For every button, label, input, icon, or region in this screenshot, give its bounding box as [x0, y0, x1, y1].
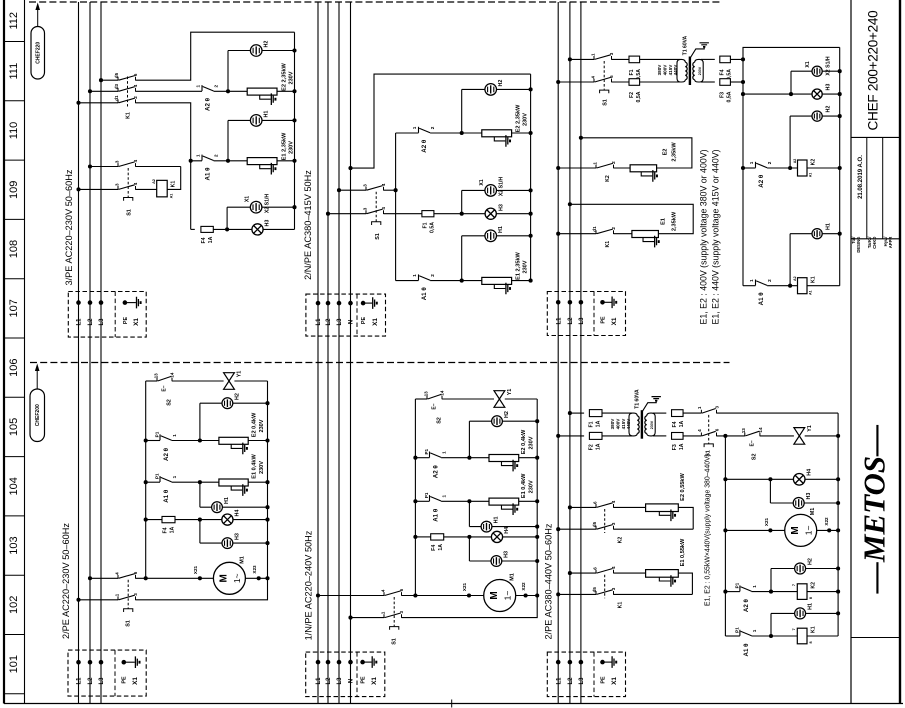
- node F4 out: [198, 518, 202, 522]
- svg-text:d1: d1: [114, 95, 119, 101]
- lamp H2: [795, 563, 806, 574]
- socket X1: [485, 185, 497, 197]
- terminal L1: [316, 301, 321, 306]
- svg-text:E1 0,4kW: E1 0,4kW: [251, 454, 257, 479]
- wire L2 to S1 pole b: [328, 213, 366, 215]
- lamp H1: [812, 229, 822, 239]
- node L2 tap K1: [568, 571, 572, 575]
- svg-text:8: 8: [809, 641, 813, 643]
- svg-text:102: 102: [8, 596, 20, 614]
- node L2 tap S1: [326, 212, 330, 216]
- svg-text:2: 2: [133, 96, 138, 99]
- wire K2 coil to rail: [807, 167, 840, 169]
- node rail X2: [292, 205, 296, 209]
- node L2 tap S1: [568, 57, 572, 61]
- svg-text:d3: d3: [114, 83, 119, 89]
- svg-text:3: 3: [609, 52, 614, 55]
- svg-text:2/PE AC220–230V 50–60Hz: 2/PE AC220–230V 50–60Hz: [61, 523, 71, 639]
- switch S1 pole a: [701, 410, 716, 414]
- node E2 feed: [467, 456, 471, 460]
- svg-text:P1: P1: [735, 582, 740, 588]
- lamp H3: [222, 538, 233, 549]
- node rail H1: [838, 232, 842, 236]
- wire N to top rail: [351, 74, 531, 168]
- svg-text:H2: H2: [264, 41, 270, 48]
- wire L1 to K2 pole: [558, 167, 596, 169]
- svg-text:F4: F4: [672, 421, 678, 427]
- svg-text:K1: K1: [810, 276, 816, 283]
- transformer T1 primary winding: [682, 59, 686, 62]
- svg-text:S1: S1: [127, 209, 133, 216]
- svg-text:230V: 230V: [523, 260, 529, 273]
- S1 mechanical link: [127, 168, 129, 197]
- svg-text:L1: L1: [77, 318, 83, 326]
- node rail H1: [265, 505, 269, 509]
- svg-text:H2: H2: [808, 558, 814, 565]
- bus wire L1 (right blocks): [557, 2, 559, 704]
- contactor K1 pole 1-2: [118, 99, 136, 103]
- wire K1 coil to rail: [807, 285, 840, 287]
- S1 mechanical link: [603, 61, 605, 90]
- contactor K1 pole b: [596, 591, 614, 595]
- heating element E2: [646, 504, 679, 512]
- wire H2 row: [790, 115, 840, 117]
- svg-text:L1: L1: [556, 317, 562, 325]
- svg-text:P1: P1: [155, 473, 160, 479]
- wire F4 to S1 a: [683, 412, 701, 414]
- wire H2 row: [462, 88, 531, 90]
- wire H3 row: [743, 93, 840, 95]
- svg-text:F1: F1: [589, 421, 595, 427]
- svg-text:X21: X21: [462, 582, 467, 591]
- node rail M1: [265, 576, 269, 580]
- wire up to H2: [199, 403, 201, 440]
- terminal block X1 outline: [547, 292, 625, 336]
- svg-text:K1: K1: [617, 602, 623, 609]
- wire H1 row: [200, 506, 268, 508]
- switch S1 pole a: [594, 56, 612, 60]
- node rail E2: [292, 89, 296, 93]
- svg-text:1: 1: [412, 126, 417, 129]
- svg-text:H2: H2: [498, 80, 504, 87]
- lamp H2: [492, 416, 503, 427]
- node L2 return: [568, 202, 572, 206]
- svg-text:13: 13: [154, 373, 159, 379]
- wire up to H2: [461, 89, 463, 133]
- svg-text:A1 θ: A1 θ: [433, 508, 440, 522]
- svg-text:E1 0,55kW: E1 0,55kW: [680, 538, 686, 566]
- wire T1 to F4: [653, 412, 667, 414]
- switch S1 pole b: [701, 433, 716, 437]
- motor M1: [785, 514, 817, 546]
- node F4 out: [741, 57, 745, 61]
- wire T1 to F3: [701, 81, 715, 83]
- svg-text:1: 1: [442, 494, 447, 497]
- lamp H4: [491, 531, 502, 542]
- heating element E2: [489, 455, 519, 462]
- wire F1 to T1 primary: [640, 58, 680, 60]
- svg-text:7: 7: [792, 628, 796, 630]
- svg-text:E2: E2: [663, 149, 669, 156]
- bus wire L2 (right blocks): [569, 2, 571, 704]
- svg-text:H3: H3: [825, 84, 831, 91]
- terminal L2: [88, 660, 93, 665]
- svg-text:2: 2: [214, 154, 219, 157]
- svg-text:6: 6: [593, 567, 598, 570]
- svg-text:F2: F2: [629, 92, 635, 98]
- svg-text:L3: L3: [99, 677, 105, 685]
- wire X2 row: [227, 206, 294, 208]
- svg-text:3: 3: [363, 207, 368, 210]
- svg-text:1/N/PE AC220–240V 50Hz: 1/N/PE AC220–240V 50Hz: [303, 530, 313, 640]
- wire M1 to rail: [516, 595, 538, 597]
- switch S2 contact: [427, 396, 442, 400]
- svg-text:K2: K2: [605, 175, 611, 182]
- svg-text:L3: L3: [337, 318, 343, 326]
- node rail X1: [529, 188, 533, 192]
- svg-text:3: 3: [115, 160, 120, 163]
- svg-text:E1 2,35kW: E1 2,35kW: [516, 251, 522, 279]
- wire A1 row left: [146, 481, 160, 483]
- svg-text:X1: X1: [611, 677, 618, 685]
- heating element E2: [630, 165, 657, 172]
- heating element E1: [247, 158, 277, 165]
- svg-text:110: 110: [8, 122, 20, 140]
- middle sheet-break dashed line: [30, 362, 730, 364]
- wire A2 to K2 coil: [752, 591, 798, 593]
- wire F3 to S1 b: [683, 435, 701, 437]
- switch S2 contact: [745, 433, 760, 437]
- node L3 tap S1: [337, 188, 341, 192]
- lamp H1: [481, 521, 492, 532]
- wire S2 to Y1: [442, 398, 494, 400]
- node A2 feed: [741, 166, 745, 170]
- wire M1 to rail: [817, 529, 839, 531]
- svg-text:2: 2: [611, 227, 616, 230]
- svg-text:X1: X1: [372, 318, 379, 326]
- svg-text:3: 3: [611, 587, 616, 590]
- svg-text:E1, E2 : 0,55kW×440V(supply v: E1, E2 : 0,55kW×440V(supply voltage 380–…: [704, 454, 711, 606]
- svg-text:A2 θ: A2 θ: [758, 174, 765, 188]
- thermostat contact A2: [159, 434, 161, 440]
- svg-text:A2: A2: [793, 276, 797, 281]
- svg-text:106: 106: [8, 358, 20, 376]
- svg-text:400V: 400V: [663, 64, 668, 76]
- node H3 branch: [741, 92, 745, 96]
- svg-text:1A: 1A: [438, 544, 444, 551]
- S1 mechanical link: [708, 415, 710, 444]
- svg-text:H1: H1: [224, 497, 230, 504]
- fuse F1: [422, 211, 434, 217]
- svg-text:2: 2: [430, 274, 435, 277]
- wire H1 row: [790, 233, 840, 235]
- svg-text:P1: P1: [424, 448, 429, 454]
- svg-text:3: 3: [611, 522, 616, 525]
- wire A2 row left: [396, 132, 419, 134]
- terminal L1: [556, 660, 561, 665]
- svg-text:A1 θ: A1 θ: [421, 287, 428, 301]
- node E1 feed: [198, 480, 202, 484]
- node rail E1: [535, 499, 539, 503]
- svg-text:S1: S1: [391, 638, 397, 645]
- svg-text:0,5A: 0,5A: [429, 222, 435, 233]
- wire A2 row left: [725, 591, 740, 593]
- wire E1 return loop: [570, 204, 693, 233]
- wire L3 to S1 pole a: [339, 189, 366, 191]
- wire S1 b return: [402, 399, 538, 618]
- wire M1 row left: [725, 529, 785, 531]
- lamp H2: [222, 398, 233, 409]
- terminal block X1 outline: [306, 294, 386, 336]
- node E2 feed: [460, 131, 464, 135]
- wire L1 to S1 pole b: [558, 81, 594, 83]
- node rail H3: [836, 501, 840, 505]
- thermostat contact A2: [429, 452, 431, 458]
- svg-text:PE: PE: [361, 676, 367, 684]
- svg-text:d5: d5: [592, 587, 597, 593]
- thermostat contact A2: [418, 127, 420, 133]
- svg-text:F4: F4: [201, 237, 207, 243]
- CHEF220 arrow to sheet break: [37, 10, 39, 27]
- svg-text:E2 2,35kW: E2 2,35kW: [282, 62, 288, 90]
- node E1 feed: [226, 159, 230, 163]
- node left rail join: [413, 593, 417, 597]
- heating element E1: [632, 231, 659, 238]
- wire A1 row left: [415, 500, 429, 502]
- svg-text:101: 101: [8, 655, 20, 673]
- border frame left strip: [3, 0, 5, 704]
- svg-text:1A: 1A: [679, 420, 685, 427]
- contactor K2 pole a: [596, 504, 614, 508]
- page right border: [899, 0, 901, 704]
- svg-text:X21: X21: [193, 565, 198, 574]
- node A2 feed: [723, 590, 727, 594]
- svg-text:380V: 380V: [657, 64, 662, 76]
- svg-text:S2: S2: [436, 417, 442, 424]
- wire H3 row: [469, 560, 537, 562]
- svg-text:4: 4: [611, 500, 616, 503]
- svg-text:2: 2: [767, 161, 772, 164]
- node rail H3: [529, 212, 533, 216]
- contactor coil K2: [797, 584, 807, 600]
- wire L2 to S1 pole a: [90, 577, 118, 579]
- fuse F2: [589, 432, 602, 439]
- node rail Y1: [836, 434, 840, 438]
- svg-text:H4: H4: [807, 469, 813, 476]
- node E1 feed: [467, 499, 471, 503]
- terminal L2: [568, 660, 573, 665]
- node X21: [768, 528, 772, 532]
- bus wire L3 (left blocks): [100, 2, 102, 704]
- svg-text:E2 0,4kW: E2 0,4kW: [251, 412, 257, 437]
- thermostat contact A2: [739, 585, 741, 591]
- wire down to H3: [199, 520, 201, 544]
- wire L2 to K1 pole 3: [90, 90, 118, 92]
- node rail H1: [535, 525, 539, 529]
- node L1 tap K2: [556, 166, 560, 170]
- svg-text:E1 0,4kW: E1 0,4kW: [521, 473, 527, 498]
- node E2 feed: [198, 438, 202, 442]
- wire Y1 to rail: [805, 435, 838, 437]
- svg-text:A2 θ: A2 θ: [433, 465, 440, 479]
- svg-text:4: 4: [381, 207, 386, 210]
- svg-text:H1: H1: [494, 516, 500, 523]
- svg-text:0,5A: 0,5A: [636, 91, 642, 102]
- node M1 feed: [723, 528, 727, 532]
- svg-text:1~: 1~: [803, 526, 813, 536]
- wire S2 to Y1: [172, 380, 224, 382]
- switch S1 pole a: [118, 163, 136, 167]
- wire H4 row: [725, 478, 838, 480]
- wire A1 row left: [725, 635, 740, 637]
- wire K1 coil to pole a: [167, 167, 181, 190]
- terminal block X1 outline: [547, 652, 625, 697]
- lamp H1: [250, 115, 262, 127]
- node L1 tap S1: [316, 593, 320, 597]
- node rail H2: [265, 401, 269, 405]
- svg-text:F3: F3: [672, 444, 678, 450]
- node rail E1: [292, 159, 296, 163]
- svg-text:H3: H3: [235, 533, 241, 540]
- svg-text:L2: L2: [88, 677, 94, 685]
- bus wire L3 (middle blocks): [338, 2, 340, 704]
- CHEF200 arrow to sheet break: [36, 370, 38, 389]
- terminal L3: [579, 300, 584, 305]
- wire F2 to T1 primary: [602, 435, 632, 437]
- lamp H1: [795, 608, 806, 619]
- wire rail down to F4: [190, 161, 192, 230]
- wire left rail block3: [742, 59, 744, 285]
- node L2 tap S1: [88, 164, 92, 168]
- node A2 feed: [144, 438, 148, 442]
- node L1 tap K1: [556, 592, 560, 596]
- node rail H1: [836, 611, 840, 615]
- svg-text:8: 8: [809, 597, 813, 599]
- wire E1 to rail: [512, 280, 531, 282]
- svg-text:S2: S2: [751, 454, 757, 461]
- svg-text:L3: L3: [99, 318, 105, 326]
- wire up to X1 socket: [461, 190, 463, 213]
- lamp H1: [485, 230, 497, 242]
- svg-text:E1, E2 : 400V (supply voltage: E1, E2 : 400V (supply voltage 380V or 40…: [699, 149, 709, 324]
- node rail K2: [838, 166, 842, 170]
- svg-text:K1: K1: [125, 112, 131, 119]
- valve Y1: [794, 428, 805, 445]
- wire E2 to rail: [519, 457, 538, 459]
- svg-text:P1: P1: [735, 627, 740, 633]
- svg-text:PE: PE: [600, 316, 606, 324]
- svg-text:230V: 230V: [523, 113, 529, 126]
- svg-text:2,35kW: 2,35kW: [672, 142, 678, 162]
- S1 mechanical link: [375, 192, 377, 222]
- svg-text:1~: 1~: [232, 573, 242, 583]
- svg-text:1: 1: [381, 611, 386, 614]
- wire E2 to rail: [512, 132, 531, 134]
- node F3 out: [741, 80, 745, 84]
- node rail H2: [292, 48, 296, 52]
- wire L1 to S1 pole a: [318, 595, 384, 597]
- bottom frame line: [4, 703, 903, 705]
- svg-text:6: 6: [133, 571, 138, 574]
- node rail M1: [836, 528, 840, 532]
- node rail H1: [292, 118, 296, 122]
- svg-text:X23: X23: [252, 565, 257, 574]
- svg-text:H1: H1: [808, 603, 814, 610]
- wire H3 row: [200, 542, 268, 544]
- wire K1 coil to rail: [807, 635, 838, 637]
- svg-text:L2: L2: [568, 677, 574, 685]
- node L2 tap T1: [568, 411, 572, 415]
- wire K1 b out: [614, 593, 693, 595]
- node rail E2: [529, 131, 533, 135]
- wire left rail block4: [145, 381, 147, 578]
- wire L2 to S1 pole a: [570, 58, 594, 60]
- fuse F4: [720, 56, 731, 63]
- wire L3 to K1 pole 5: [101, 79, 118, 81]
- svg-text:X2 S1/H: X2 S1/H: [825, 56, 831, 76]
- svg-text:E–: E–: [161, 385, 167, 391]
- heating element E1: [646, 570, 679, 578]
- wire H2 row: [771, 568, 838, 570]
- wire H1 row: [469, 526, 537, 528]
- svg-text:H3: H3: [504, 551, 510, 558]
- svg-text:E1 2,35kW: E1 2,35kW: [282, 132, 288, 160]
- wire L1 to F2: [558, 435, 584, 437]
- wire F4 row left: [415, 536, 430, 538]
- S1 actuator hook: [372, 222, 381, 225]
- wire Y1 to rail: [505, 398, 537, 400]
- switch S1 pole b: [384, 614, 402, 618]
- svg-text:X1: X1: [244, 196, 250, 202]
- svg-text:14: 14: [170, 372, 175, 378]
- wire S1 a out to feed rail: [384, 189, 396, 191]
- terminal L1: [316, 660, 321, 665]
- ground T1 screen: [652, 397, 661, 399]
- svg-text:105: 105: [8, 418, 20, 436]
- svg-text:H1: H1: [825, 223, 831, 230]
- node X1 branch: [789, 92, 793, 96]
- wire F4 to H4: [444, 536, 538, 538]
- svg-text:4: 4: [133, 84, 138, 87]
- svg-text:L3: L3: [579, 677, 585, 685]
- svg-text:1: 1: [697, 406, 702, 409]
- node S1 feed T: [394, 188, 398, 192]
- svg-text:X1: X1: [611, 317, 618, 325]
- svg-text:K1: K1: [170, 181, 176, 188]
- wire K1 pole4 to A2: [136, 90, 203, 92]
- wire A2 to E2: [441, 457, 489, 459]
- svg-text:L1: L1: [77, 677, 83, 685]
- contactor K1 pole 3-4: [118, 88, 136, 92]
- svg-text:E–: E–: [749, 440, 755, 446]
- svg-text:1A: 1A: [208, 236, 214, 243]
- wire K2 a to E2: [614, 506, 646, 508]
- node X22: [524, 593, 528, 597]
- lamp H3: [793, 498, 804, 509]
- svg-text:L2: L2: [326, 318, 332, 326]
- svg-text:E2 2,35kW: E2 2,35kW: [516, 104, 522, 132]
- svg-text:3: 3: [715, 405, 720, 408]
- wire A2 to K2 coil: [767, 167, 797, 169]
- contactor coil K1: [157, 180, 168, 197]
- thermostat contact A1: [739, 630, 741, 636]
- lamp H2: [250, 45, 262, 57]
- node F4 feed: [413, 535, 417, 539]
- svg-text:6: 6: [133, 73, 138, 76]
- fuse F4: [431, 534, 444, 540]
- node rail H4: [836, 477, 840, 481]
- fuse F3: [720, 79, 731, 86]
